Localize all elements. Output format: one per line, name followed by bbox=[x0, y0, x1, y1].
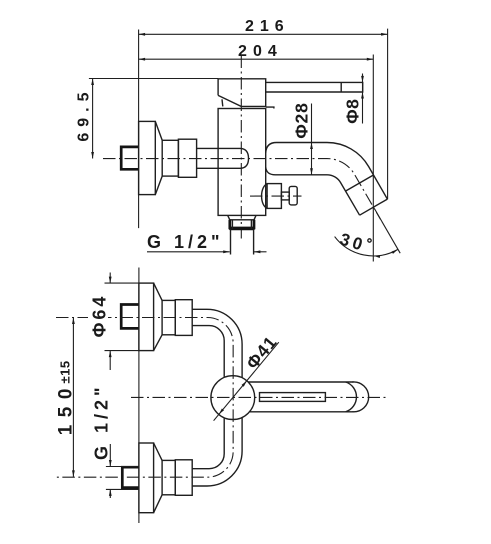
small step on body top right bbox=[266, 107, 274, 108]
handle rod joint line bbox=[340, 82, 342, 92]
svg-text:G 1/2": G 1/2" bbox=[91, 383, 111, 460]
inlet pipe with round cap end bbox=[197, 148, 249, 168]
diverter cylinder bbox=[267, 184, 281, 209]
30 degree reference slant line bbox=[375, 209, 401, 253]
connector ring bbox=[178, 139, 196, 177]
dimension 216 right extension line bbox=[387, 29, 389, 200]
tailpiece chamfer right bbox=[254, 215, 256, 219]
handle base inner edge bbox=[221, 99, 224, 106]
dimension G 1/2 line with arrows bbox=[147, 250, 267, 253]
upper escutcheon cone slants bbox=[154, 283, 163, 351]
lower elbow pipe inner edge bbox=[192, 418, 224, 469]
dimension 204 line bbox=[139, 58, 374, 61]
tailpiece thread lines bbox=[232, 220, 251, 229]
spout bar bottom edge (plan) bbox=[250, 411, 354, 413]
lower escutcheon cone slants bbox=[154, 443, 163, 513]
svg-text:204: 204 bbox=[238, 43, 283, 60]
svg-text:216: 216 bbox=[245, 18, 290, 35]
upper connector cylinder bbox=[162, 300, 175, 334]
upper elbow pipe outer edge bbox=[192, 309, 242, 378]
svg-text:Φ64: Φ64 bbox=[89, 294, 109, 338]
svg-text:G 1/2": G 1/2" bbox=[147, 232, 224, 252]
dimension dia64 line segments with arrows bbox=[109, 273, 112, 371]
handle lever rod bbox=[266, 82, 363, 92]
svg-text:69.5: 69.5 bbox=[76, 87, 93, 142]
spout bar top edge (plan) bbox=[248, 381, 353, 383]
faucet body block bbox=[218, 109, 266, 216]
lower connector ring bbox=[175, 460, 192, 496]
tailpiece nut bold bottom bbox=[230, 227, 254, 231]
diverter stem bbox=[281, 192, 289, 200]
lower inlet nut thin edges / G1/2 extension lines bbox=[106, 467, 139, 490]
escutcheon disc (top view) bbox=[139, 121, 156, 194]
tailpiece nut bold sides bbox=[230, 220, 254, 229]
spout aerator ring line bbox=[346, 175, 374, 191]
lower elbow pipe outer edge bbox=[192, 418, 242, 486]
dimension dia41 leader line bbox=[214, 342, 279, 421]
dimension 69.5 extension line (top of body) bbox=[89, 78, 218, 80]
handle slot on spout (plan) bbox=[260, 393, 326, 402]
wall mounting line (top view) / dim extension left bbox=[138, 30, 140, 229]
upper escutcheon bottom extension line (dia64) bbox=[105, 350, 139, 352]
central body circle bbox=[211, 376, 255, 420]
connector cylinder bbox=[162, 140, 178, 176]
spout outlet face bbox=[360, 199, 388, 215]
escutcheon cone lower slant bbox=[155, 176, 162, 195]
svg-text:±15: ±15 bbox=[57, 360, 72, 383]
diverter cap arc bbox=[262, 184, 268, 208]
30 degree arc bbox=[335, 237, 398, 256]
svg-text:Φ8: Φ8 bbox=[342, 99, 362, 124]
tailpiece hex nut bbox=[230, 220, 254, 229]
svg-text:Φ28: Φ28 bbox=[292, 102, 312, 138]
svg-text:150: 150 bbox=[56, 381, 77, 435]
lower connector cylinder bbox=[162, 460, 175, 494]
cartridge cap with tilted handle base bbox=[218, 79, 266, 107]
dimension 69.5 line bbox=[91, 79, 94, 159]
spout horizontal centerline (plan) bbox=[131, 396, 389, 398]
upper escutcheon disc bbox=[139, 283, 154, 351]
hex wall nut (top view, bold) bbox=[121, 147, 138, 169]
body vertical centerline bbox=[240, 56, 242, 239]
spout end inner cap arc bbox=[346, 382, 357, 412]
diverter knob bbox=[289, 186, 297, 205]
upper inlet hex nut (bold) bbox=[121, 305, 139, 329]
escutcheon cone upper slant bbox=[155, 121, 162, 140]
main horizontal centerline of inlet/spout bbox=[103, 159, 381, 220]
spout outer (upper) edge with bend bbox=[266, 142, 388, 199]
30 degree arc arrows bbox=[373, 254, 380, 258]
diverter centerline bbox=[250, 195, 302, 197]
lower escutcheon disc bbox=[139, 443, 154, 513]
dimension 204 extension line down to spout tip bbox=[372, 55, 374, 262]
dimension 150 line bbox=[72, 318, 75, 477]
dimension G1/2 line segments with arrows (plan) bbox=[109, 444, 112, 498]
threaded tailpipe bbox=[231, 229, 254, 254]
dimension 216 line bbox=[139, 33, 388, 36]
upper elbow pipe inner edge bbox=[192, 326, 224, 378]
svg-text:30: 30 bbox=[338, 229, 368, 255]
upper connector ring bbox=[175, 300, 192, 336]
dimension dia8 line bbox=[361, 74, 364, 124]
spout inner (lower) edge with bend bbox=[266, 167, 360, 215]
tailpiece chamfer left bbox=[228, 215, 230, 219]
upper escutcheon top extension line (dia64) bbox=[105, 282, 139, 284]
dimension dia41 arrows bbox=[242, 380, 248, 387]
wall mounting line (plan view) bbox=[138, 268, 140, 524]
dimension dia28 line bbox=[310, 104, 313, 175]
upper inlet centerline through elbow down to lower elbow bbox=[56, 318, 233, 478]
lower inlet hex nut (bold) bbox=[122, 467, 138, 487]
svg-text:Φ41: Φ41 bbox=[242, 332, 281, 373]
white halo behind dia64 text bbox=[88, 294, 108, 338]
spout end outer cap arc bbox=[353, 382, 369, 412]
